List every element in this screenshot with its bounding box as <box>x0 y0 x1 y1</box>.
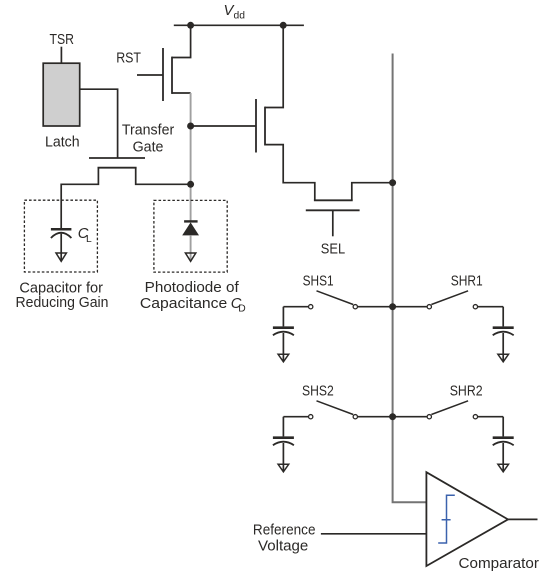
op-amp comparator U1 <box>426 472 508 566</box>
wire to ground <box>502 443 504 471</box>
wire FD node (gray vertical) <box>190 93 192 221</box>
switch SHR2 right contact <box>473 415 477 419</box>
transistor M-SF source lead down to SEL <box>265 145 315 201</box>
svg-text:Gate: Gate <box>133 138 164 155</box>
node junction column row1 <box>389 303 396 310</box>
wire to ground <box>282 333 284 361</box>
svg-text:Photodiode of: Photodiode of <box>145 279 240 296</box>
top plate <box>273 436 294 439</box>
wire column bus (gray vertical) <box>393 54 427 503</box>
wire right contact to cap <box>478 416 503 418</box>
switch SHS2 left contact <box>309 415 313 419</box>
switch SHR2 blade <box>431 401 468 415</box>
wire right contact to cap <box>478 306 503 308</box>
capacitor CL top plate <box>51 228 72 231</box>
wire cap to left contact <box>283 416 308 418</box>
transistor SEL gate bar <box>306 209 360 211</box>
capacitor under SHS2 <box>273 417 294 472</box>
wire to ground <box>282 443 284 471</box>
node FD junction <box>187 123 194 130</box>
curved plate <box>273 332 294 336</box>
wire right contact to column <box>358 416 393 418</box>
switch SHR2 left contact <box>427 415 431 419</box>
switch SHR1 <box>393 273 504 309</box>
svg-text:TSR: TSR <box>50 31 75 48</box>
capacitor CL curved plate <box>51 233 72 238</box>
latch box <box>43 63 79 126</box>
wire down <box>282 307 284 327</box>
photodiode triangle <box>182 222 199 235</box>
top plate <box>493 326 514 329</box>
node junction on Vdd rail left <box>187 22 194 29</box>
dashed box photodiode <box>154 200 227 272</box>
transistor RST gate lead <box>137 74 163 76</box>
ground <box>498 354 509 362</box>
wire cap to left contact <box>283 306 308 308</box>
svg-text:Comparator: Comparator <box>459 555 539 572</box>
svg-text:SEL: SEL <box>321 240 345 257</box>
svg-text:SHS2: SHS2 <box>302 382 334 399</box>
wire down <box>502 417 504 437</box>
svg-text:RST: RST <box>116 49 141 66</box>
transistor source follower M-SF gate bar <box>255 99 257 153</box>
wire down <box>282 417 284 437</box>
wire latch output to transfer gate <box>80 89 117 158</box>
curved plate <box>493 332 514 336</box>
wire reference voltage input <box>321 533 427 535</box>
top plate <box>273 326 294 329</box>
svg-text:L: L <box>86 234 92 245</box>
wire down <box>502 307 504 327</box>
svg-text:Reducing Gain: Reducing Gain <box>16 294 109 311</box>
node junction FD bottom <box>187 181 194 188</box>
transistor Transfer Gate left lead to capacitor <box>61 168 98 230</box>
capacitor under SHR1 <box>493 307 514 362</box>
switch SHS1 blade <box>317 291 354 305</box>
dashed box capacitor CL <box>24 200 97 272</box>
transistor RST channel bar <box>171 57 173 94</box>
svg-text:SHR2: SHR2 <box>450 382 483 399</box>
wire to ground <box>502 333 504 361</box>
switch SHR2 <box>393 382 504 418</box>
transistor RST source lead <box>172 92 191 94</box>
svg-text:SHR1: SHR1 <box>451 273 483 290</box>
switch SHR1 left contact <box>427 305 431 309</box>
node junction column / SEL <box>389 179 396 186</box>
ground <box>278 464 289 472</box>
ground <box>498 464 509 472</box>
switch SHS2 blade <box>317 401 354 415</box>
hysteresis symbol inside comparator <box>438 495 455 543</box>
photodiode cathode bar <box>184 220 198 222</box>
ground <box>278 354 289 362</box>
svg-text:Latch: Latch <box>45 134 80 151</box>
svg-text:D: D <box>238 304 245 315</box>
curved plate <box>493 442 514 446</box>
transistor SEL channel bar <box>314 199 353 201</box>
transistor Transfer Gate gate bar <box>89 157 145 159</box>
switch SHS2 right contact <box>353 415 357 419</box>
wire column to left contact <box>393 306 427 308</box>
transistor RST gate bar <box>162 48 164 101</box>
transistor RST: drain wire from Vdd <box>172 25 191 57</box>
node junction on Vdd rail right <box>280 22 287 29</box>
svg-text:Capacitance: Capacitance <box>140 295 227 312</box>
wire comparator output <box>508 518 538 520</box>
switch SHR1 blade <box>431 291 468 305</box>
curved plate <box>273 442 294 446</box>
wire FD to source-follower gate <box>191 125 256 127</box>
ground under CL <box>56 253 66 261</box>
switch SHS1 <box>283 273 392 309</box>
svg-text:SHS1: SHS1 <box>303 273 334 290</box>
svg-text:Transfer: Transfer <box>122 122 174 139</box>
ground under photodiode <box>185 253 195 261</box>
wire Vdd rail <box>174 24 304 26</box>
svg-text:Reference: Reference <box>253 522 316 539</box>
transistor Transfer Gate right lead to FD <box>136 168 191 185</box>
switch SHR1 right contact <box>473 305 477 309</box>
capacitor under SHS1 <box>273 307 294 362</box>
wire CL to ground <box>60 234 62 261</box>
transistor M-SF channel bar <box>264 107 266 146</box>
wire column to left contact <box>393 416 427 418</box>
wire photodiode to ground (gray) <box>190 235 192 260</box>
wire TSR input <box>60 47 62 63</box>
transistor SEL source lead to column <box>352 183 393 201</box>
switch SHS2 <box>283 382 392 418</box>
wire right contact to column <box>358 306 393 308</box>
top plate <box>493 436 514 439</box>
svg-text:dd: dd <box>234 10 246 21</box>
switch SHS1 left contact <box>309 305 313 309</box>
transistor Transfer Gate channel bar <box>98 167 137 169</box>
node junction column row2 <box>389 413 396 420</box>
transistor M-SF drain lead to Vdd <box>265 25 283 107</box>
svg-text:Voltage: Voltage <box>258 538 308 555</box>
switch SHS1 right contact <box>353 305 357 309</box>
transistor SEL gate lead <box>332 210 334 236</box>
capacitor under SHR2 <box>493 417 514 472</box>
